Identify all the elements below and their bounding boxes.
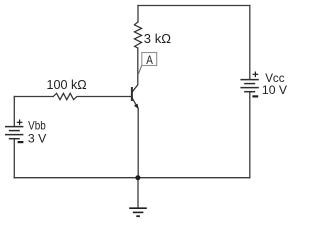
wire top rail <box>138 5 250 7</box>
battery V1 Vbb plates <box>5 127 23 139</box>
svg-text:A: A <box>146 53 153 67</box>
battery V2 Vcc plates <box>240 80 258 92</box>
wire collector branch top (top rail to R2) <box>137 6 139 23</box>
wire bottom rail <box>14 177 250 179</box>
V2 plus sign <box>253 72 259 78</box>
wire base line right of R1 to Q1 base <box>77 96 132 98</box>
wire left rail lower (Vbb to bottom rail) <box>13 139 15 178</box>
node junction dot (emitter / ground / bottom rail) <box>135 175 140 180</box>
transistor Q1 (NPN BJT) <box>132 85 138 109</box>
wire right rail upper (Vcc to top rail) <box>249 6 251 80</box>
svg-text:10 V: 10 V <box>262 83 287 97</box>
wire base line left of R1 <box>14 96 53 98</box>
svg-text:3 V: 3 V <box>28 132 46 146</box>
Q1 base bar <box>131 87 133 101</box>
wire right rail lower (Vcc to bottom rail) <box>249 92 251 178</box>
resistor R2 3 kOhm (vertical zigzag) <box>134 22 141 48</box>
V2 minus sign <box>252 95 258 97</box>
Q1 emitter arrowhead <box>134 104 139 109</box>
wire ground stem <box>137 178 139 208</box>
svg-text:100 kΩ: 100 kΩ <box>47 77 87 92</box>
svg-text:3 kΩ: 3 kΩ <box>144 31 171 46</box>
ground symbol <box>129 208 147 216</box>
wire emitter branch (Q1 emitter to bottom rail) <box>137 109 139 178</box>
V1 minus sign <box>18 141 24 143</box>
svg-text:Vbb: Vbb <box>28 119 46 133</box>
ammeter probe A box <box>142 53 157 66</box>
wire left rail upper (Vbb to base line) <box>13 97 15 127</box>
ammeter probe A callout tail <box>138 66 142 75</box>
wire collector branch (R2 to Q1 collector) <box>137 48 139 85</box>
V1 plus sign <box>17 120 23 126</box>
resistor R1 100 kOhm (horizontal zigzag) <box>53 93 77 99</box>
Q1 emitter diagonal <box>132 98 138 109</box>
Q1 collector diagonal <box>132 85 138 93</box>
